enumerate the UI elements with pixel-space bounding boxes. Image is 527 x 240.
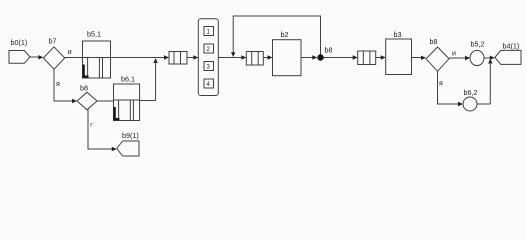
queue2 accumulator: [246, 52, 263, 66]
wire queue3 to b3: [376, 57, 382, 59]
wire b7 down to b8 left: [54, 69, 73, 101]
svg-text:b3: b3: [394, 30, 402, 39]
b6,1 inner channel lines: [118, 100, 120, 121]
wire b7 to b5,1: [65, 57, 83, 59]
svg-text:b4(1): b4(1): [503, 42, 520, 51]
wire b6,1 return horizontal: [140, 100, 156, 102]
wire b5,1 to queue1: [111, 57, 166, 59]
b5,1 thick corner mark: [84, 65, 89, 77]
svg-text:2: 2: [207, 47, 211, 53]
svg-text:b0(1): b0(1): [11, 38, 28, 47]
circle b6,2: [463, 97, 477, 111]
wire b6,2 to return: [477, 103, 490, 105]
arrowhead into b9: [112, 147, 117, 151]
svg-text:я: я: [439, 81, 443, 88]
svg-text:b8: b8: [325, 46, 333, 55]
sink block b9(1) pentagon: [117, 141, 139, 156]
svg-text:b8: b8: [430, 37, 438, 46]
svg-text:b6,2: b6,2: [464, 88, 478, 97]
wire b0 to b7: [30, 56, 39, 58]
wire b8 left down to b9: [88, 109, 113, 149]
junction node b8 dot: [317, 54, 323, 60]
svg-text:3: 3: [207, 65, 211, 71]
svg-text:1: 1: [207, 30, 211, 36]
wire queue2 to b2: [263, 57, 268, 59]
arrowhead into diamond b8: [421, 56, 426, 60]
arrowhead into b3: [381, 55, 386, 59]
svg-text:b7: b7: [49, 37, 57, 46]
arrowhead into b7: [38, 55, 43, 59]
arrowhead into queue3: [353, 55, 358, 59]
source block b0 pentagon: [9, 51, 30, 64]
svg-text:4: 4: [207, 82, 211, 88]
cell 4: [204, 79, 214, 88]
svg-text:и: и: [452, 51, 456, 58]
b5,1 divider: [83, 57, 111, 59]
wire b5,2 to b4: [484, 57, 492, 59]
svg-text:я: я: [56, 81, 60, 88]
queue1 accumulator: [169, 52, 187, 65]
sink block b4(1) pentagon: [495, 50, 521, 64]
arrowhead into b5,2: [465, 56, 470, 60]
channel block b3: [386, 39, 412, 75]
svg-text:b2: b2: [281, 30, 289, 39]
wire b3 to diamond b8: [412, 57, 423, 59]
wire b8 left to b6,1: [97, 100, 114, 102]
channel block b2: [273, 40, 302, 76]
svg-text:b5,2: b5,2: [471, 40, 485, 49]
arrowhead up from b6,1 return: [153, 58, 157, 63]
arrowhead into b6,2: [458, 102, 463, 106]
wire b6,2 return vertical: [489, 62, 491, 104]
arrowhead into b4: [490, 56, 495, 60]
circle b5,2: [470, 50, 484, 65]
arrowhead into b8 node: [312, 55, 317, 59]
arrowhead into selector: [193, 55, 198, 59]
wire b6,1 return vertical: [155, 62, 157, 101]
selector block with cells: [198, 19, 218, 96]
arrowhead into queue2: [241, 55, 246, 59]
arrowhead into b2: [268, 55, 273, 59]
b6,1 divider: [114, 99, 140, 101]
wire queue1 to selector: [187, 57, 194, 59]
wire b8 node to queue3: [324, 57, 355, 59]
wire diamond to b5,2: [449, 57, 466, 59]
wire selector to queue2: [218, 57, 243, 59]
decision diamond b7: [43, 47, 64, 70]
svg-text:b9(1): b9(1): [122, 131, 139, 140]
svg-text:и: и: [68, 49, 72, 56]
b5,1 inner channel lines: [87, 58, 89, 79]
decision diamond b8 left: [77, 92, 97, 110]
svg-text:b6,1: b6,1: [121, 75, 135, 84]
device block b5,1 outer: [83, 41, 111, 78]
arrowhead feedback down: [231, 52, 235, 57]
cell 2: [204, 44, 214, 53]
svg-text:b5,1: b5,1: [87, 30, 101, 39]
cell 3: [204, 62, 214, 71]
svg-text:г: г: [90, 122, 93, 129]
b6,1 thick corner mark: [115, 107, 120, 119]
arrowhead into queue1: [164, 55, 169, 59]
wire b2 to b8 node: [301, 57, 313, 59]
decision diamond b8 right: [426, 47, 449, 71]
arrowhead up from b6,2: [488, 59, 492, 64]
device block b6,1 outer: [114, 84, 140, 121]
feedback loop wire from b8 node: [233, 16, 320, 55]
arrowhead into b8 left: [72, 99, 77, 103]
svg-text:b8: b8: [80, 84, 88, 93]
queue3 accumulator: [358, 51, 376, 65]
cell 1: [204, 27, 214, 36]
wire diamond b8 right down: [438, 71, 460, 104]
